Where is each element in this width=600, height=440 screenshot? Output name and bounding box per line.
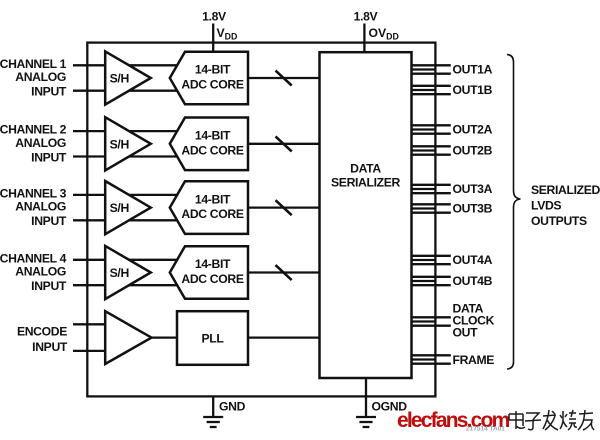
svg-text:ADC CORE: ADC CORE <box>181 272 243 286</box>
svg-text:14-BIT: 14-BIT <box>195 63 231 77</box>
wire CH1 ADC data bus to serializer <box>248 77 320 79</box>
power OVDD 1.8V supply node <box>354 9 399 52</box>
pin pair OUT3B LVDS output <box>412 204 451 212</box>
svg-text:INPUT: INPUT <box>31 150 67 164</box>
wire CH3 analog input + <box>73 194 181 196</box>
svg-text:ANALOG: ANALOG <box>15 265 66 279</box>
svg-text:CHANNEL 3: CHANNEL 3 <box>0 186 67 200</box>
svg-text:DATA: DATA <box>350 161 381 175</box>
S/H amplifier A3 <box>105 181 151 234</box>
brace grouping serialized LVDS outputs <box>507 55 521 370</box>
data serializer block <box>320 52 412 378</box>
pin pair OUT4A LVDS output <box>412 256 451 264</box>
svg-text:ENCODE: ENCODE <box>17 324 67 338</box>
svg-text:OUT1A: OUT1A <box>453 63 493 77</box>
pin pair OUT3A LVDS output <box>412 185 451 193</box>
svg-text:INPUT: INPUT <box>31 214 67 228</box>
bus-width slash CH4 <box>276 265 292 280</box>
svg-text:OUT1B: OUT1B <box>453 83 493 97</box>
svg-text:OUT2B: OUT2B <box>453 144 493 158</box>
wire PLL to serializer <box>248 336 320 338</box>
svg-text:OUT4A: OUT4A <box>453 253 493 267</box>
wire CH1 analog input + <box>73 64 181 66</box>
svg-text:217514 TA01: 217514 TA01 <box>466 426 505 433</box>
label ENCODE INPUT <box>17 324 68 354</box>
svg-text:SERIALIZED: SERIALIZED <box>531 183 600 197</box>
pin pair DATA CLOCK OUT LVDS output <box>412 317 451 325</box>
pin pair FRAME LVDS output <box>412 355 451 363</box>
svg-text:OUT3A: OUT3A <box>453 182 493 196</box>
ADC core block ADC3 14-bit <box>170 181 248 234</box>
wire CH3 analog input - <box>73 219 181 221</box>
pin pair OUT2B LVDS output <box>412 146 451 154</box>
svg-text:LVDS: LVDS <box>531 198 561 212</box>
ground GND symbol <box>203 396 245 427</box>
clock buffer amplifier A5 <box>105 311 151 364</box>
wire CH4 ADC data bus to serializer <box>248 271 320 273</box>
svg-text:ANALOG: ANALOG <box>15 200 66 214</box>
svg-text:FRAME: FRAME <box>453 353 495 367</box>
svg-text:CHANNEL 2: CHANNEL 2 <box>0 123 67 137</box>
ADC core block ADC2 14-bit <box>170 118 248 171</box>
wire CH2 analog input - <box>73 155 181 157</box>
svg-text:S/H: S/H <box>110 137 129 151</box>
svg-text:ADC CORE: ADC CORE <box>181 143 243 157</box>
pin pair OUT1A LVDS output <box>412 65 451 73</box>
label CHANNEL 1 ANALOG INPUT <box>0 57 67 99</box>
svg-text:CHANNEL 1: CHANNEL 1 <box>0 57 67 71</box>
power VDD 1.8V supply node <box>202 9 237 51</box>
svg-text:OUT2A: OUT2A <box>453 123 493 137</box>
label CHANNEL 4 ANALOG INPUT <box>0 251 67 293</box>
svg-text:OUT3B: OUT3B <box>453 202 493 216</box>
wire ENCODE input - <box>73 350 107 352</box>
pin pair OUT2A LVDS output <box>412 125 451 133</box>
watermark elecfans.com logo <box>397 409 510 433</box>
bus-width slash CH2 <box>276 136 292 151</box>
wire CH2 analog input + <box>73 130 181 132</box>
svg-text:INPUT: INPUT <box>31 279 67 293</box>
svg-text:ANALOG: ANALOG <box>15 136 66 150</box>
svg-text:OUTPUTS: OUTPUTS <box>531 214 587 228</box>
wire CH4 analog input + <box>73 259 181 261</box>
ADC core block ADC1 14-bit <box>170 52 248 105</box>
wire clock buffer to PLL <box>151 336 177 338</box>
svg-text:INPUT: INPUT <box>32 340 68 354</box>
svg-text:ADC CORE: ADC CORE <box>181 207 243 221</box>
svg-text:GND: GND <box>219 399 246 413</box>
svg-text:1.8V: 1.8V <box>354 9 379 23</box>
svg-text:1.8V: 1.8V <box>202 9 227 23</box>
svg-text:S/H: S/H <box>110 72 129 86</box>
S/H amplifier A2 <box>105 117 151 170</box>
svg-text:14-BIT: 14-BIT <box>195 192 231 206</box>
wire CH1 analog input - <box>73 90 181 92</box>
S/H amplifier A1 <box>105 51 151 104</box>
label CHANNEL 2 ANALOG INPUT <box>0 123 67 165</box>
svg-text:OUT: OUT <box>453 325 479 339</box>
svg-text:S/H: S/H <box>110 266 129 280</box>
wire CH4 analog input - <box>73 284 181 286</box>
svg-text:14-BIT: 14-BIT <box>195 129 231 143</box>
ADC core block ADC4 14-bit <box>170 246 248 299</box>
S/H amplifier A4 <box>105 246 151 299</box>
watermark chinese text dianzi fashaoyou <box>509 410 594 430</box>
svg-text:CHANNEL 4: CHANNEL 4 <box>0 251 67 265</box>
label DATA CLOCK OUT <box>453 301 495 339</box>
wire CH3 ADC data bus to serializer <box>248 206 320 208</box>
svg-text:INPUT: INPUT <box>31 85 67 99</box>
ground OGND symbol <box>356 378 407 427</box>
label SERIALIZED LVDS OUTPUTS <box>531 183 600 228</box>
label CHANNEL 3 ANALOG INPUT <box>0 186 67 228</box>
svg-text:ADC CORE: ADC CORE <box>181 78 243 92</box>
bus-width slash CH3 <box>276 200 292 215</box>
svg-text:PLL: PLL <box>202 331 225 345</box>
svg-text:14-BIT: 14-BIT <box>195 257 231 271</box>
svg-text:SERIALIZER: SERIALIZER <box>331 175 401 189</box>
PLL block <box>177 311 248 365</box>
wire CH2 ADC data bus to serializer <box>248 143 320 145</box>
svg-text:S/H: S/H <box>110 201 129 215</box>
chip outline U1 LTC2175 <box>87 43 435 397</box>
wire ENCODE input + <box>73 323 107 325</box>
pin pair OUT1B LVDS output <box>412 86 451 94</box>
svg-text:OUT4B: OUT4B <box>453 274 493 288</box>
svg-text:ANALOG: ANALOG <box>15 70 66 84</box>
pin pair OUT4B LVDS output <box>412 277 451 285</box>
bus-width slash CH1 <box>276 71 292 86</box>
